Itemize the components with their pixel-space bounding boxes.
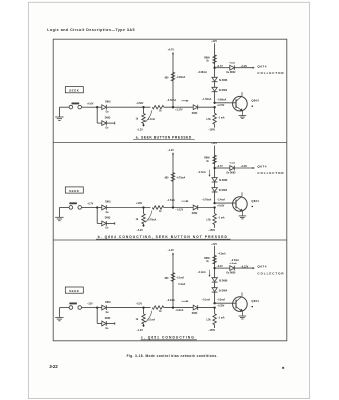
svg-text:Ge D665: Ge D665 (226, 173, 236, 175)
svg-text:1.5k: 1.5k (206, 320, 211, 322)
svg-text:–1.2V: –1.2V (168, 249, 175, 252)
svg-text:+0.6V: +0.6V (87, 102, 94, 105)
svg-text:~0.68mA: ~0.68mA (197, 71, 207, 74)
svg-text:+12V: +12V (211, 243, 217, 246)
svg-text:~1.78mA: ~1.78mA (202, 98, 212, 101)
svg-text:R660: R660 (204, 57, 210, 59)
svg-text:–12V: –12V (87, 303, 93, 306)
svg-text:~4.3mA: ~4.3mA (217, 252, 226, 255)
svg-text:Ge D662: Ge D662 (226, 72, 236, 74)
svg-text:~0.68mA: ~0.68mA (217, 98, 227, 101)
svg-text:D663: D663 (105, 218, 111, 220)
svg-text:COLLECTOR: COLLECTOR (257, 71, 284, 75)
svg-text:+0.72V: +0.72V (217, 105, 225, 107)
svg-text:Si D666: Si D666 (219, 80, 228, 82)
svg-text:–0.66V: –0.66V (136, 102, 144, 105)
svg-text:+4.9V: +4.9V (241, 165, 248, 168)
svg-text:3-22: 3-22 (49, 364, 58, 369)
svg-text:D652: D652 (192, 113, 198, 115)
svg-text:COLLECTOR: COLLECTOR (257, 271, 284, 275)
svg-text:~0.3mA: ~0.3mA (217, 299, 226, 302)
svg-text:Q674: Q674 (257, 265, 267, 269)
svg-text:Q664: Q664 (251, 299, 259, 303)
svg-text:SEEK: SEEK (69, 189, 80, 193)
svg-text:–150V: –150V (208, 229, 215, 232)
svg-text:–1.2V: –1.2V (137, 129, 144, 132)
svg-text:~0.1mA: ~0.1mA (197, 271, 206, 274)
svg-text:1.5k: 1.5k (206, 219, 211, 221)
svg-text:b. Q664 CONDUCTING, SEEK BUTTO: b. Q664 CONDUCTING, SEEK BUTTON NOT PRES… (98, 235, 228, 239)
svg-text:–0.35V: –0.35V (217, 306, 225, 308)
svg-text:Si D666: Si D666 (219, 280, 228, 282)
svg-text:D663: D663 (105, 117, 111, 119)
svg-text:1.5k: 1.5k (206, 119, 211, 121)
svg-text:5.4mA: 5.4mA (178, 283, 185, 286)
svg-text:~0.1mA: ~0.1mA (176, 276, 185, 279)
svg-text:+4.8V: +4.8V (136, 202, 143, 205)
svg-text:D661: D661 (105, 202, 111, 204)
svg-text:–1.2V: –1.2V (168, 149, 175, 152)
svg-text:Fig. 3-18. Mode control bias n: Fig. 3-18. Mode control bias network con… (127, 354, 218, 358)
svg-text:–0.3mA: –0.3mA (175, 309, 184, 312)
svg-text:~0.72mA: ~0.72mA (167, 99, 177, 102)
svg-text:Q664: Q664 (251, 199, 259, 203)
svg-text:–0.12V: –0.12V (241, 265, 249, 268)
svg-text:–4.2V: –4.2V (137, 229, 144, 232)
svg-text:a. SEEK BUTTON PRESSED: a. SEEK BUTTON PRESSED (136, 135, 192, 139)
svg-text:Q664: Q664 (251, 99, 259, 103)
svg-text:Si D666: Si D666 (219, 180, 228, 182)
svg-text:–150V: –150V (208, 329, 215, 332)
svg-text:~1 mA: ~1 mA (218, 116, 225, 119)
svg-text:SEEK: SEEK (69, 89, 80, 93)
svg-text:Ge D665: Ge D665 (226, 273, 236, 275)
svg-text:R660: R660 (204, 158, 210, 160)
svg-text:Si D664: Si D664 (219, 289, 228, 292)
svg-text:Logic and Circuit Description—: Logic and Circuit Description—Type 3A5 (47, 28, 135, 32)
svg-text:Q674: Q674 (257, 64, 267, 68)
svg-text:~1mA: ~1mA (229, 162, 235, 165)
svg-text:+4.7V: +4.7V (168, 49, 175, 52)
svg-text:+12V: +12V (211, 142, 217, 145)
svg-text:–0.2V: –0.2V (136, 302, 143, 305)
svg-text:COLLECTOR: COLLECTOR (257, 171, 284, 175)
svg-text:~1 5mA: ~1 5mA (167, 199, 176, 202)
svg-text:Q674: Q674 (257, 165, 267, 169)
svg-text:D661: D661 (105, 302, 111, 304)
svg-text:–150V: –150V (208, 129, 215, 132)
svg-text:Si D664: Si D664 (219, 189, 228, 192)
svg-text:D661: D661 (105, 101, 111, 103)
svg-text:~0.5mA: ~0.5mA (231, 259, 240, 262)
svg-text:+4.9V: +4.9V (241, 65, 248, 68)
svg-text:~4.75mA: ~4.75mA (176, 176, 186, 179)
svg-text:D663: D663 (105, 318, 111, 320)
svg-text:~1 mA: ~1 mA (218, 317, 225, 320)
svg-text:~0.5mA: ~0.5mA (229, 262, 237, 265)
svg-text:D652: D652 (192, 313, 198, 315)
svg-text:~1 mA: ~1 mA (218, 217, 225, 220)
svg-text:~2.4mA: ~2.4mA (217, 199, 226, 202)
svg-text:~0.76mA: ~0.76mA (202, 199, 212, 202)
svg-text:~0mA: ~0mA (229, 61, 235, 64)
svg-text:~0.1mA: ~0.1mA (202, 299, 211, 302)
svg-text:+12V: +12V (211, 40, 217, 43)
svg-text:Si D664: Si D664 (219, 89, 228, 92)
svg-text:–1.2V: –1.2V (137, 329, 144, 332)
svg-text:~0.3mA: ~0.3mA (167, 299, 176, 302)
svg-text:SEEK: SEEK (69, 289, 80, 293)
svg-text:c. Q651 CONDUCTING: c. Q651 CONDUCTING (141, 336, 195, 340)
svg-text:– 0.12V: – 0.12V (175, 210, 183, 212)
svg-text:R660: R660 (204, 258, 210, 260)
svg-text:+0.91V: +0.91V (217, 206, 225, 208)
svg-text:~0.7mA: ~0.7mA (197, 171, 206, 174)
svg-text:D652: D652 (192, 213, 198, 215)
svg-text:~0.28mA: ~0.28mA (176, 76, 186, 79)
svg-text:+1.27V: +1.27V (175, 109, 183, 111)
svg-text:–0.7V: –0.7V (87, 203, 94, 206)
